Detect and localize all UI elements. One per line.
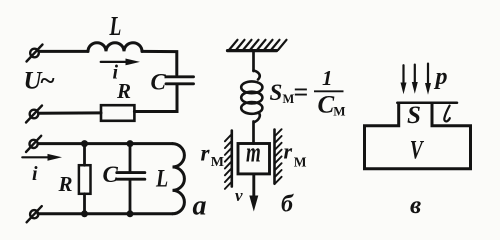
wire (capacitor down to bottom-right corner) [134, 85, 177, 111]
svg-text:C: C [318, 92, 335, 119]
ceiling hatching [229, 40, 287, 50]
rod from spring to mass [252, 122, 255, 144]
terminal top-left of series circuit [27, 45, 43, 62]
terminal bottom-left of parallel circuit [27, 206, 42, 222]
svg-text:a: a [193, 191, 207, 222]
junction dot top-left (R branch) [81, 140, 88, 147]
svg-text:m: m [246, 138, 261, 168]
svg-text:r: r [201, 141, 211, 166]
inductor L (parallel circuit, vertical coil) [173, 144, 185, 214]
svg-text:М: М [333, 104, 345, 119]
svg-text:М: М [211, 155, 224, 170]
spring Sm (three loops) [241, 71, 262, 123]
terminal top-left of parallel circuit [26, 136, 41, 152]
pressure arrow 2 [412, 65, 418, 94]
svg-text:в: в [410, 192, 421, 219]
wire (inductor to top-right corner and down to capacitor) [142, 51, 177, 74]
svg-text:R: R [58, 172, 73, 196]
svg-text:p: p [434, 64, 448, 90]
rod from ceiling to spring [252, 51, 255, 71]
pressure arrow 1 [401, 65, 407, 94]
wire bottom (parallel circuit) [38, 212, 173, 215]
svg-text:i: i [32, 163, 38, 185]
vessel body V with neck (acoustic system) [365, 103, 471, 169]
svg-text:C: C [151, 70, 167, 95]
wire top (terminal to inductor) [39, 50, 88, 53]
svg-text:S: S [270, 80, 283, 105]
neck top line [397, 102, 457, 105]
left friction wall [225, 131, 232, 189]
svg-text:1: 1 [322, 66, 333, 90]
junction dot bottom-left (R branch) [81, 210, 88, 217]
junction dot top-right (C branch) [127, 140, 134, 147]
terminal bottom-left of series circuit [26, 106, 42, 123]
resistor R (parallel circuit) with leads [79, 144, 91, 214]
inductor L (series circuit) [88, 43, 142, 52]
svg-text:М: М [294, 154, 307, 169]
velocity arrow v [249, 174, 258, 212]
label l (neck length, script ell) [444, 106, 450, 122]
capacitor C (series circuit) bottom plate [166, 82, 194, 85]
junction dot bottom-right (C branch) [127, 210, 134, 217]
ceiling line (mechanical system) [228, 49, 277, 52]
wire bottom (resistor to terminal) [39, 111, 101, 114]
svg-text:V: V [410, 136, 424, 164]
pressure arrow 3 [425, 64, 431, 95]
current arrow i (parallel circuit) [22, 154, 62, 161]
resistor R (series circuit) [101, 105, 134, 121]
svg-text:L: L [109, 12, 122, 42]
svg-text:R: R [116, 79, 131, 103]
current arrow i (series circuit) [101, 59, 140, 66]
svg-text:~: ~ [41, 66, 55, 96]
svg-text:r: r [284, 139, 293, 164]
right friction wall [275, 129, 282, 184]
svg-text:=: = [294, 78, 309, 107]
capacitor C (series circuit) top plate [166, 75, 194, 78]
capacitor C (parallel circuit) with leads [117, 144, 145, 214]
svg-text:б: б [281, 191, 294, 217]
svg-text:v: v [235, 186, 243, 205]
mass m box [238, 144, 270, 174]
svg-text:S: S [407, 102, 421, 129]
formula Sm = 1/Cm [270, 66, 346, 118]
wire top (parallel circuit) [38, 142, 173, 145]
svg-text:L: L [155, 164, 168, 192]
svg-text:C: C [103, 162, 119, 187]
